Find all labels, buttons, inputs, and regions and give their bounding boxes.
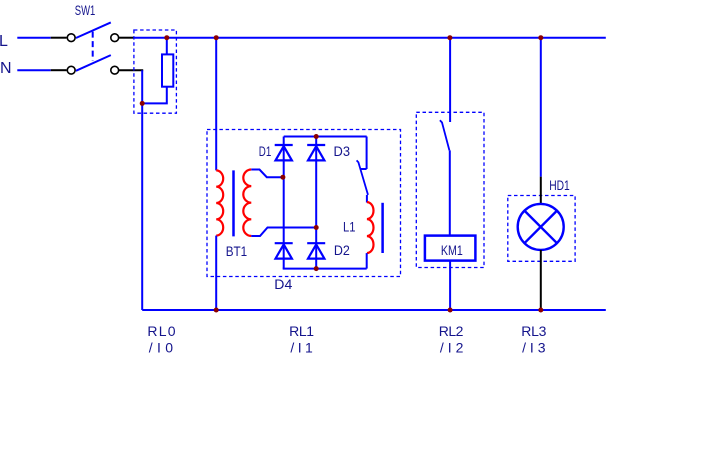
switch SW1 terminal L-left (67, 34, 75, 42)
wire bridge output to contact (366, 137, 368, 170)
diode D4 (275, 243, 293, 258)
diode D1 (275, 145, 293, 160)
junction bottom bus / transformer (214, 308, 219, 313)
svg-text:L1: L1 (343, 218, 356, 234)
svg-text:HD1: HD1 (549, 177, 570, 193)
wire transformer primary drop (215, 38, 217, 171)
wire contact to coil (366, 195, 368, 203)
junction bottom bus / HD1 (538, 308, 543, 313)
wire contact to coil KM1 (449, 150, 451, 235)
svg-text:L: L (0, 33, 8, 50)
wire L to bus (black) (119, 37, 135, 39)
wire transformer primary to bottom bus (215, 236, 217, 310)
junction secondary top / bridge (280, 175, 285, 180)
wire L feed (blue) (17, 37, 50, 39)
junction top bus / resistor (164, 35, 169, 40)
switch SW1 pole L blade (76, 22, 111, 38)
contact fixed foot (360, 168, 367, 170)
enclosure BT1 rectifier (dashed box) (207, 130, 401, 277)
wire HD1 pin bottom (black) (540, 250, 542, 310)
svg-text:N: N (0, 60, 12, 77)
junction top bus / transformer (214, 35, 219, 40)
contact KM1 blade (440, 120, 450, 150)
diode D3 (307, 145, 325, 160)
enclosure HD1 (dashed box) (508, 196, 575, 262)
wire HD1 drop from bus (blue) (540, 38, 542, 177)
switch SW1 terminal L-right (111, 34, 119, 42)
wire N return vertical (141, 70, 143, 310)
svg-text:BT1: BT1 (226, 243, 248, 259)
junction bridge bottom rail (314, 266, 319, 271)
wire bridge left vertical (283, 137, 285, 269)
enclosure KM1 (dashed box) (416, 112, 484, 267)
relay L1 core bar (381, 203, 384, 253)
wire coil to bridge bottom (366, 253, 368, 269)
wire HD1 pin top (black) (540, 177, 542, 205)
wire KM1 to bottom bus (449, 261, 451, 310)
wire resistor bottom lead (142, 87, 167, 104)
svg-text:D4: D4 (274, 276, 292, 292)
wire secondary top to bridge (251, 170, 283, 178)
wire bridge top rail (284, 136, 367, 138)
junction resistor return (140, 101, 145, 106)
svg-text:D2: D2 (334, 242, 350, 258)
junction bridge top rail (314, 134, 319, 139)
wire bottom bus N (142, 309, 606, 311)
svg-text:RL1: RL1 (289, 323, 314, 339)
junction secondary bottom / bridge (314, 225, 319, 230)
wire N feed (blue) (17, 69, 50, 71)
wire N feed (black) (51, 69, 67, 71)
svg-text:KM1: KM1 (441, 242, 463, 258)
junction top bus / KM1 (447, 35, 452, 40)
wire bridge bottom rail (283, 268, 367, 270)
wire KM1 drop from bus (449, 38, 451, 122)
wire secondary bottom to bridge (251, 228, 316, 237)
junction bottom bus / KM1 (448, 308, 453, 313)
coil KM1 body (425, 236, 476, 261)
wire bridge right vertical (315, 137, 317, 269)
switch SW1 terminal N-right (111, 66, 119, 74)
transformer BT1 primary winding (216, 170, 223, 235)
svg-text:SW1: SW1 (75, 2, 96, 18)
relay coil L1 (367, 202, 374, 253)
wire N to return (black) (119, 69, 143, 71)
svg-text:D1: D1 (259, 143, 272, 159)
resistor body (162, 54, 173, 86)
transformer BT1 core (232, 170, 235, 236)
diode D2 (307, 243, 325, 258)
enclosure resistor (dashed box) (134, 30, 177, 113)
svg-text:RL0: RL0 (147, 323, 175, 339)
switch SW1 mechanical link (dashed) (92, 32, 94, 61)
svg-text:D3: D3 (334, 143, 351, 159)
svg-text:RL3: RL3 (521, 323, 546, 339)
wire resistor top lead (166, 38, 168, 56)
junction top bus / HD1 (538, 35, 543, 40)
switch SW1 pole N blade (76, 55, 111, 71)
switch SW1 terminal N-left (67, 66, 75, 74)
transformer BT1 secondary winding (243, 170, 251, 236)
svg-text:RL2: RL2 (439, 323, 464, 339)
contact blade (thermal switch) (357, 160, 368, 195)
lamp HD1 (518, 204, 564, 250)
wire top bus L (135, 37, 606, 39)
wire L feed (black) (51, 37, 67, 39)
